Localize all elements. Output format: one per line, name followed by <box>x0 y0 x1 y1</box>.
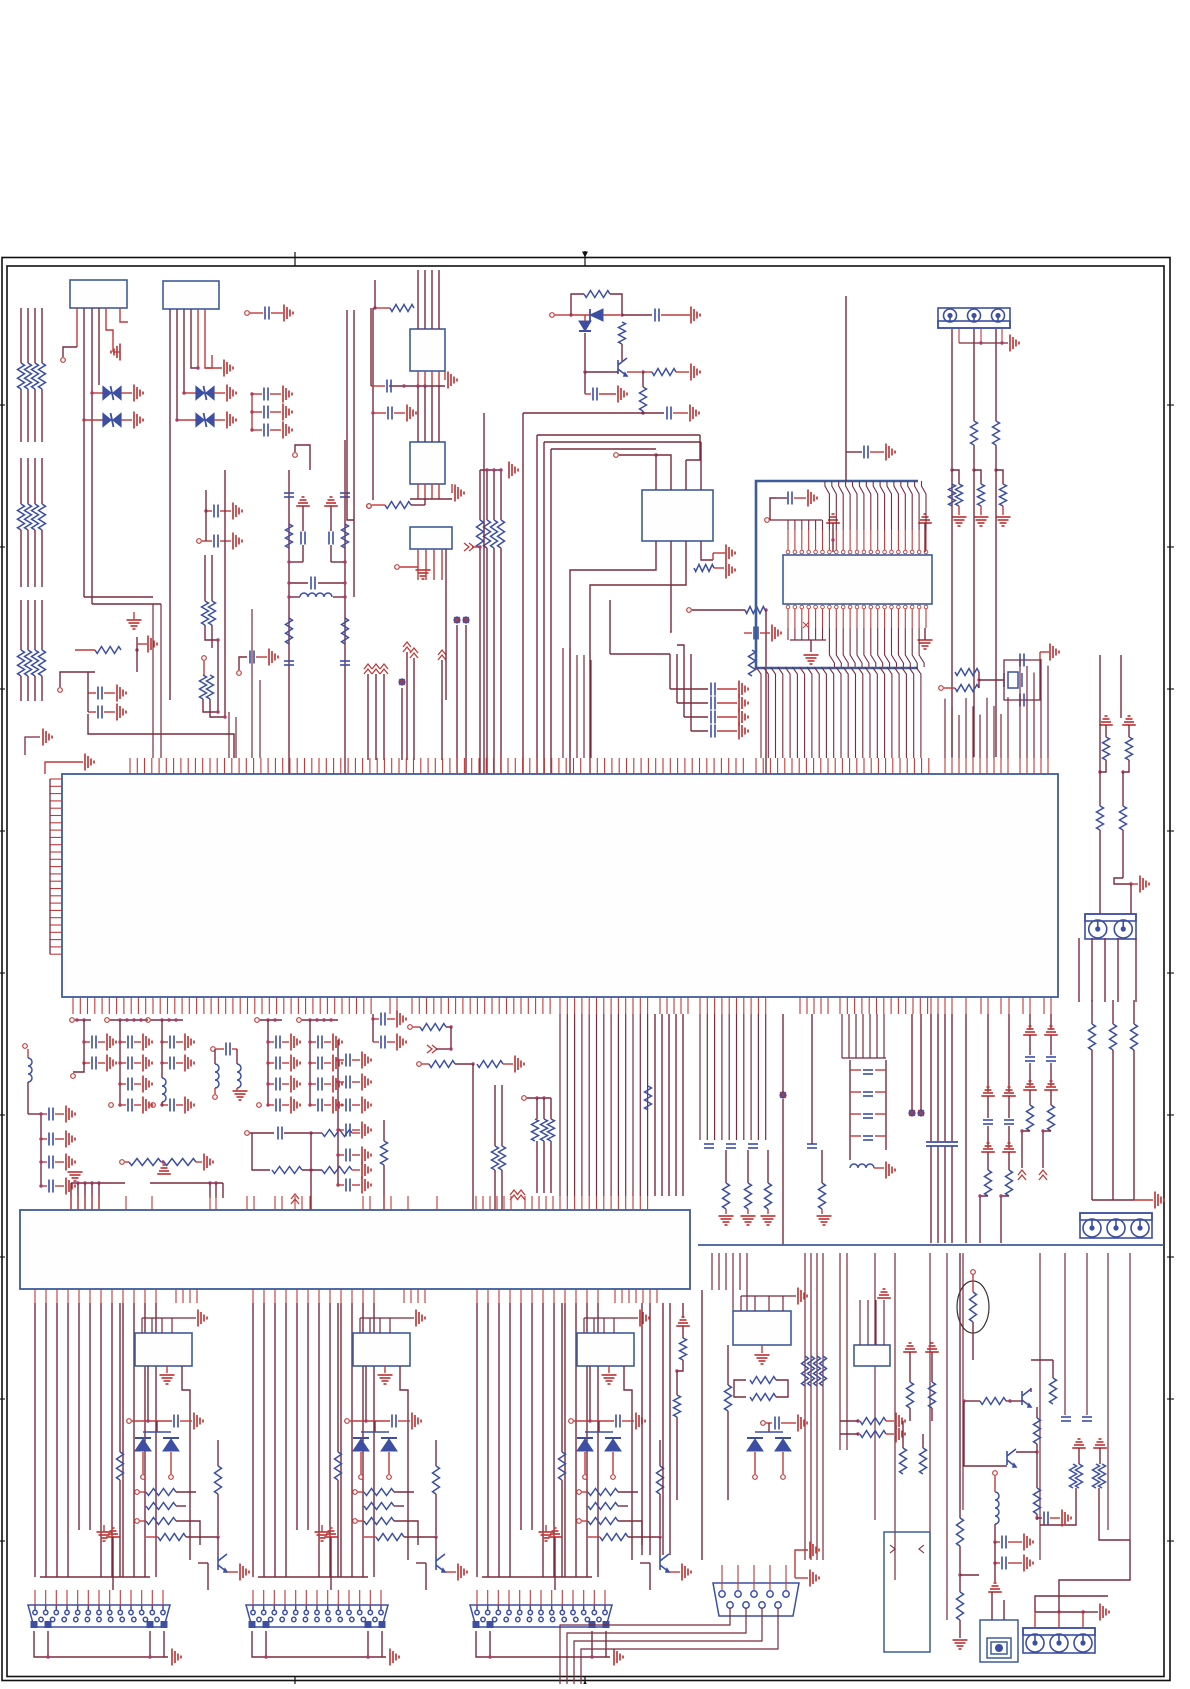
wire Cm5b r <box>282 1062 289 1064</box>
wire Cm1b l <box>84 1062 90 1064</box>
wire rr1030b <box>1029 1063 1031 1086</box>
junction80 <box>308 1061 311 1064</box>
wire A capr2 <box>180 1420 192 1422</box>
wire fl6 <box>331 561 345 563</box>
wire fr1113 <box>1112 1000 1114 1024</box>
ground Cm5c <box>291 1076 300 1093</box>
ground Cm1b <box>107 1055 116 1072</box>
junction78 <box>329 1018 332 1021</box>
wire C b1 <box>589 1366 591 1421</box>
junction92 <box>90 1181 93 1184</box>
resistor R29 <box>749 650 756 676</box>
IC U9 top pin stubs <box>71 1196 648 1210</box>
wire A rv u <box>119 1303 121 1452</box>
buzzer LS1 <box>980 1620 1018 1662</box>
wire long B <box>353 310 355 597</box>
power bar b1 <box>903 1343 917 1352</box>
wire fr1092b <box>1091 1050 1093 1200</box>
ground U7 <box>804 655 819 664</box>
resistor R147 <box>1110 1024 1117 1050</box>
wire fl12 <box>333 596 345 598</box>
wire tm7b <box>455 1063 473 1065</box>
terminal TPm5 <box>213 1095 218 1100</box>
wire Y1 g <box>1040 651 1049 653</box>
wire cc3 h <box>691 730 708 732</box>
resistor R25 <box>652 369 676 376</box>
wire qb2 <box>964 1400 980 1402</box>
wire rr1051c <box>1050 1090 1052 1105</box>
wire lb4 <box>994 1563 996 1582</box>
wire D6 up <box>584 315 586 321</box>
wire U7 rail <box>770 520 823 530</box>
wire qb8 <box>1030 1388 1032 1392</box>
wire rb v <box>902 1421 904 1448</box>
resistor Rb13 <box>1034 1488 1041 1514</box>
wire cc1 v <box>676 654 678 703</box>
resistor RL1c <box>25 650 32 676</box>
wire mr726b <box>725 1209 727 1214</box>
junction15 <box>287 581 290 584</box>
capacitor CB1 <box>392 1415 396 1428</box>
capacitor Cm6c <box>318 1078 322 1091</box>
junction81 <box>308 1082 311 1085</box>
junction11 <box>216 710 219 713</box>
wire B v10 <box>362 1303 364 1577</box>
wire qb1 <box>1006 1400 1022 1402</box>
ground C15 <box>690 405 699 422</box>
wire mc v3 <box>214 1088 216 1094</box>
wire Q1 base <box>585 371 618 373</box>
wire U3 bot 432 <box>431 371 433 386</box>
ground GND117 <box>719 1216 734 1225</box>
w Cq5 <box>649 1563 651 1590</box>
wire U2 pin3 <box>183 309 185 393</box>
wire Cm5c l <box>268 1083 274 1085</box>
wire bus L2e <box>34 600 36 650</box>
resistor R106 <box>492 1146 499 1170</box>
wire U7 fan bottom jogs <box>829 628 924 667</box>
terminal Cm5dT <box>257 1103 262 1108</box>
resistor RA3 <box>146 1503 176 1510</box>
wire m rail1 <box>75 1019 91 1021</box>
wire rm8 <box>203 699 218 712</box>
wire tr loop <box>571 294 584 315</box>
wire vmx655 <box>654 1014 656 1196</box>
wire C11 l <box>371 385 385 387</box>
wire D1 gnd lead <box>121 392 132 394</box>
wire J1 jg 996 <box>1002 506 1004 515</box>
junction108 <box>535 1096 538 1099</box>
frame tick bottom center <box>582 1681 588 1687</box>
wire rg938 <box>937 1014 939 1141</box>
wire C61 lead <box>202 540 212 542</box>
wire u9br 663 <box>662 1303 664 1555</box>
resistor Rguc2 <box>674 1395 681 1417</box>
resistor R173 <box>1093 1464 1100 1488</box>
power bar C <box>548 1528 562 1537</box>
wire D1 lead <box>92 392 103 394</box>
ground J1 974 <box>974 517 989 526</box>
wire C4 lead2 <box>270 429 281 431</box>
terminal TP3 <box>293 453 298 458</box>
capacitor C13 <box>655 309 659 322</box>
wire U6 gr1b <box>713 552 725 554</box>
wire U1 pin1 bend <box>63 347 77 357</box>
ground C9a <box>127 620 142 629</box>
resistor R24 <box>619 322 626 344</box>
ground CC1 <box>739 695 748 712</box>
junction61 <box>118 1082 121 1085</box>
ground U2a <box>224 360 233 377</box>
wire A gwire1 <box>34 1631 168 1657</box>
wire J1 jg 952 <box>958 506 960 515</box>
wire bus L3f <box>41 676 43 701</box>
wire rg931b <box>930 1146 932 1243</box>
junction55 <box>118 1018 121 1021</box>
wire B dio bar <box>361 1431 389 1433</box>
wire NB2 <box>465 625 467 774</box>
resistor RB3 <box>364 1503 394 1510</box>
wire U4 bot 425 <box>424 484 426 499</box>
wire B b2 <box>400 1366 408 1560</box>
ground C61 <box>233 533 242 550</box>
wire U2 pin2 <box>176 309 178 420</box>
terminal TB1 <box>761 1421 766 1426</box>
resistor Rb9 <box>920 1448 927 1474</box>
ground U4 <box>455 485 464 502</box>
no-connect r2 <box>1039 1170 1047 1180</box>
junction93 <box>97 1181 100 1184</box>
wire C18 r <box>870 451 884 453</box>
resistor RF4 <box>342 618 349 644</box>
ground U1a <box>111 344 120 361</box>
wire C v11 <box>597 1303 599 1577</box>
resistor RB2 <box>491 520 498 548</box>
wire qb6 <box>1036 1444 1038 1460</box>
junction177 <box>993 1561 996 1564</box>
wire Cm8a r <box>352 1059 360 1061</box>
junction86 <box>39 1184 42 1187</box>
wire C capr2 <box>622 1420 634 1422</box>
wire nest v3 <box>543 442 545 997</box>
relay KC <box>577 1333 634 1366</box>
wire C v5 <box>531 1303 533 1530</box>
capacitor Cp1 <box>381 1013 385 1026</box>
w Br1b <box>394 1491 414 1493</box>
ground GND121 <box>761 1216 776 1225</box>
ground U6a <box>726 545 735 562</box>
wire vr812 <box>811 1014 813 1144</box>
wire J4 feed <box>1035 1596 1108 1612</box>
wire bus L1d <box>27 530 29 587</box>
wire Cm2d l <box>120 1104 126 1106</box>
capacitor C142 <box>1046 1057 1056 1061</box>
resistor Rm11 <box>477 1061 503 1068</box>
wire A d2 <box>170 1452 172 1474</box>
junction155 <box>264 1655 267 1658</box>
diode D3 suppressor <box>196 386 214 400</box>
wire st l <box>850 1069 861 1071</box>
wire Cm7d r <box>55 1185 64 1187</box>
wire U7 gnd stem <box>810 640 812 652</box>
resistor R31 <box>955 685 979 692</box>
terminal AT3 <box>169 1475 174 1480</box>
wire rr1051 <box>1050 1014 1052 1030</box>
resistor RC4 <box>588 1518 618 1525</box>
wire U6 t4 <box>700 442 702 490</box>
wire xtal in <box>944 687 955 689</box>
mark W1 a <box>890 1545 924 1553</box>
wire J1 mid <box>973 445 975 470</box>
wire U1 pin2 <box>83 308 85 597</box>
wire rg945 <box>944 1014 946 1141</box>
wire fl8 <box>330 545 332 562</box>
ground C3 <box>283 404 292 421</box>
wire R26 up <box>642 372 644 387</box>
w Cr3 <box>582 1520 588 1522</box>
wire guc c <box>676 1417 678 1500</box>
junction28 <box>478 545 481 548</box>
wire cc2 v <box>683 654 685 717</box>
wire U2 gnd lead <box>205 367 222 369</box>
resistor Rb7 <box>860 1431 886 1438</box>
wire U8 gl2 <box>44 770 46 774</box>
wire bndl3 <box>500 470 502 520</box>
wire rb l2 <box>840 1433 858 1435</box>
wire U1 pin1 <box>76 308 78 347</box>
capacitor Cb6 <box>1002 1557 1006 1570</box>
capacitor Cm3c <box>170 1099 174 1112</box>
bus bottom right <box>712 1253 1130 1620</box>
wire qb4 <box>964 1450 1007 1466</box>
wire bus L3e <box>41 600 43 650</box>
junction178 <box>958 1573 961 1576</box>
junction26 <box>492 468 495 471</box>
relay KA <box>135 1333 192 1366</box>
wire Lr1 <box>874 1167 884 1169</box>
wire C gnd stem <box>608 1366 610 1373</box>
wire m c2 feed <box>119 1020 121 1105</box>
w Cq3 <box>659 1537 661 1556</box>
junction154 <box>434 1535 437 1538</box>
wire vt551 <box>550 1098 552 1119</box>
w Cr3b <box>618 1521 642 1545</box>
capacitor Cb4 <box>1044 1512 1048 1525</box>
w Ar1 <box>140 1491 146 1493</box>
ground Cm7a <box>66 1106 75 1123</box>
wire tpx1 <box>239 657 247 670</box>
transistor QB <box>436 1554 445 1572</box>
no-connect m2 <box>510 1190 518 1200</box>
ground U8 left <box>85 754 94 771</box>
wire cp2 r <box>387 1041 395 1043</box>
resistor RL3a <box>39 363 46 389</box>
ground Rb6 <box>896 1413 905 1430</box>
wire row2b <box>284 1132 311 1134</box>
junction95 <box>214 1181 217 1184</box>
resistor RC5 <box>657 1466 664 1494</box>
wire rm1 <box>204 555 206 601</box>
resistor R120 <box>765 1183 772 1209</box>
wire vmx662 <box>661 1014 663 1196</box>
capacitor C16 <box>754 627 758 640</box>
w Cq1 <box>588 1536 600 1538</box>
wire rc988b <box>987 1126 989 1148</box>
IC U7 top pins <box>786 530 928 554</box>
net node NB1 <box>453 616 460 623</box>
wire trio rail <box>527 1097 551 1099</box>
wire gu1 <box>832 523 834 552</box>
diode D5 <box>590 309 603 321</box>
wire J4 p1035 <box>1034 1612 1036 1628</box>
wire bndl rail <box>480 469 501 471</box>
wire b1 <box>909 1352 911 1382</box>
wire tm6b <box>446 1026 451 1028</box>
wire NB1 <box>456 625 458 774</box>
wire buz <box>960 1574 979 1576</box>
wire rr1030d <box>1022 1131 1030 1168</box>
junction68 <box>160 1103 163 1106</box>
wire bus L0c <box>20 458 22 504</box>
wire U2 pin4 <box>191 309 198 368</box>
capacitor Cm8b <box>346 1076 350 1089</box>
ground B1 <box>416 1310 425 1327</box>
wire D2 gnd lead <box>121 419 132 421</box>
wire C v2 <box>498 1303 500 1577</box>
wire Cm2b r <box>134 1062 141 1064</box>
wire R21 l <box>375 307 390 309</box>
wire C12 l <box>373 412 386 414</box>
ground Rm11 <box>515 1056 524 1073</box>
wire J1 jog 996 <box>996 470 1003 484</box>
inductor LF1 <box>300 593 332 597</box>
IC U8 left pins <box>50 779 62 954</box>
wire U1 pin3 <box>91 308 93 604</box>
capacitor C2 <box>264 388 268 401</box>
wire R20 lead <box>75 649 95 651</box>
wire xtal frame <box>1004 660 1040 680</box>
power bar F1 <box>296 497 310 506</box>
resistor Rb4 <box>907 1382 914 1408</box>
resistor R172 <box>1076 1464 1083 1488</box>
wire B v3 <box>285 1303 287 1577</box>
wire m rail6 <box>302 1019 338 1021</box>
junction157 <box>588 1419 591 1422</box>
capacitor CX1 <box>250 651 254 664</box>
wire b2 <box>931 1352 933 1382</box>
wire C d1 <box>584 1452 586 1474</box>
ground Cm8a <box>362 1052 371 1069</box>
wire U1 pin6 <box>120 308 128 322</box>
wire U10 pins <box>860 1300 884 1345</box>
wire Cm3a l <box>162 1041 168 1043</box>
wire rm2 <box>211 555 213 601</box>
w Bq2 <box>404 1536 436 1538</box>
power bar143 <box>1044 1081 1058 1090</box>
connector JA DB25 <box>28 1605 170 1628</box>
wire b2b <box>931 1408 933 1421</box>
transistor QC <box>660 1554 669 1572</box>
wire U6 t1 <box>656 455 671 490</box>
wire Cm2b l <box>120 1062 126 1064</box>
wire mb 210 <box>209 1183 211 1198</box>
wire B capr2 <box>398 1420 410 1422</box>
wire J4 g <box>1083 1611 1098 1613</box>
capacitor Cm5d <box>276 1099 280 1112</box>
wire mr748b <box>747 1209 749 1214</box>
wire to C13 <box>622 314 652 316</box>
wire bus L3a <box>41 308 43 363</box>
ground left edge <box>25 737 40 755</box>
wire tr loop2 <box>610 294 622 315</box>
wire cc1 h <box>677 702 708 704</box>
junction145 <box>1041 1129 1044 1132</box>
capacitor Cr1 <box>807 1144 817 1148</box>
wire B box top rail <box>360 1318 414 1333</box>
junction45 <box>994 468 997 471</box>
wire xtal v <box>978 672 980 688</box>
relay K4 <box>733 1311 791 1345</box>
wire Cm8d r <box>352 1129 360 1131</box>
wire Cm6d r <box>324 1104 331 1106</box>
wire m c7 feed <box>40 1114 42 1186</box>
wire B v11 <box>373 1303 375 1577</box>
wire C v4 <box>520 1303 522 1530</box>
wire bus L0e <box>20 600 22 650</box>
wire C gwire1 <box>476 1631 610 1657</box>
capacitor Cm2b <box>128 1057 132 1070</box>
wire Cm6b l <box>310 1062 316 1064</box>
junction7 <box>250 410 253 413</box>
terminal TPm1b <box>71 1074 76 1079</box>
resistor Rm1 <box>129 1159 161 1166</box>
junction63 <box>160 1018 163 1021</box>
wire A v5 <box>89 1303 91 1530</box>
wire bndl2 <box>493 470 495 520</box>
ground Cm6b <box>333 1055 342 1072</box>
w Crv2u <box>659 1440 661 1466</box>
resistor RL0b <box>18 504 25 530</box>
wire bus v <box>483 413 485 774</box>
wire J3 g <box>1134 1199 1153 1201</box>
capacitor Cb2 <box>1061 1417 1071 1421</box>
resistor J1 extra <box>949 484 956 506</box>
wire B dio stem <box>374 1421 376 1432</box>
wire A v6 <box>100 1303 102 1577</box>
display W1 <box>884 1532 930 1652</box>
wire C1 lead2 <box>271 312 283 314</box>
wire D6 down <box>584 333 586 372</box>
ground C12 <box>407 405 416 422</box>
ground C2 <box>602 1375 617 1384</box>
ground Cm8f <box>362 1177 371 1194</box>
wire C capr <box>574 1420 614 1422</box>
wire cb5 <box>1040 1510 1076 1525</box>
wire bndl1b <box>486 548 488 774</box>
resistor R111 <box>541 1119 548 1141</box>
capacitor C115 <box>748 1144 758 1148</box>
wire B v5 <box>307 1303 309 1530</box>
resistor RB4 <box>364 1518 394 1525</box>
ground Y1 <box>1050 644 1059 661</box>
wire rm6 <box>217 648 219 712</box>
wire C61 lead2 <box>220 540 231 542</box>
wire Rb3d <box>727 1411 729 1500</box>
wire fl3 <box>302 506 304 531</box>
terminal TP9 <box>614 453 619 458</box>
wire rr1030c <box>1029 1090 1031 1105</box>
wire cb r <box>1050 1517 1060 1519</box>
